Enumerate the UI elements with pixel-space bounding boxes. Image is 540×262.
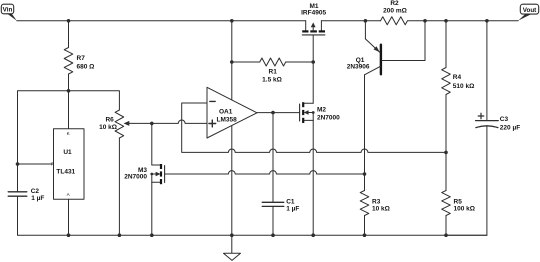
transistor M2 2N7000	[312, 62, 314, 103]
IC U1 TL431 body	[54, 129, 85, 200]
svg-text:220 µF: 220 µF	[500, 125, 520, 132]
wire R7 to U1 K pin	[68, 74, 70, 129]
svg-text:R2: R2	[390, 0, 399, 7]
ground symbol	[231, 235, 233, 253]
wire U1 R pin	[18, 163, 54, 165]
capacitor C3	[486, 21, 488, 121]
svg-text:1 µF: 1 µF	[286, 206, 299, 213]
node dot ground rail op-amp V-	[230, 233, 234, 237]
svg-text:Vin: Vin	[3, 7, 13, 14]
node dot feedback at divider	[444, 151, 448, 155]
wire top rail M1 to R2	[321, 20, 380, 22]
svg-text:R6: R6	[105, 116, 114, 123]
wire top rail R2 to Vout	[408, 20, 519, 22]
node dot wire B at R3	[363, 172, 367, 176]
node dot top rail Q1 base	[423, 19, 427, 23]
svg-text:10 kΩ: 10 kΩ	[372, 206, 390, 213]
resistor R1	[231, 21, 233, 62]
svg-text:1 µF: 1 µF	[31, 195, 44, 202]
node Vout label	[520, 4, 538, 14]
resistor R2	[381, 17, 408, 25]
node dot top rail C3	[485, 19, 489, 23]
wire feedback divider to op-amp inverting input	[182, 103, 446, 152]
resistor R4	[445, 21, 447, 68]
svg-text:C2: C2	[31, 188, 40, 195]
capacitor C1	[272, 113, 274, 203]
node dot ground rail C1	[271, 233, 275, 237]
resistor R3	[360, 191, 369, 216]
svg-text:R7: R7	[77, 55, 86, 62]
svg-text:200 mΩ: 200 mΩ	[383, 7, 407, 14]
node dot ground rail U1	[67, 233, 71, 237]
svg-text:10 kΩ: 10 kΩ	[99, 124, 117, 131]
node dot ground rail R6	[118, 233, 122, 237]
node dot ground rail M2	[311, 233, 315, 237]
svg-text:100 kΩ: 100 kΩ	[454, 206, 475, 213]
node Vin label	[1, 4, 13, 14]
node dot top rail R7	[67, 19, 71, 23]
wire ground rail	[18, 234, 487, 236]
node dot R1 right	[311, 60, 315, 64]
wire op-amp non-inverting input	[152, 120, 207, 123]
node dot R6 wiper junction	[150, 122, 154, 126]
node dot R1 left	[230, 60, 234, 64]
svg-text:U1: U1	[63, 149, 72, 156]
wire op-amp output	[257, 112, 300, 114]
svg-text:IRF4905: IRF4905	[301, 10, 326, 17]
potentiometer R6 wiper arrow	[129, 122, 152, 124]
node dot ground rail M3	[150, 233, 154, 237]
svg-text:680 Ω: 680 Ω	[77, 64, 95, 71]
wire horizontal left node	[18, 91, 120, 192]
svg-text:510 kΩ: 510 kΩ	[453, 83, 474, 90]
svg-text:R4: R4	[453, 74, 462, 81]
svg-text:R5: R5	[454, 199, 463, 206]
node dot R7 bottom junction	[67, 89, 71, 93]
wire op-amp V- supply to ground rail	[231, 126, 233, 236]
op-amp OA1 LM358	[207, 87, 257, 138]
svg-text:2N7000: 2N7000	[124, 174, 147, 181]
svg-text:R3: R3	[372, 199, 381, 206]
wire U1 A pin to ground rail	[68, 199, 70, 235]
svg-text:1.5 kΩ: 1.5 kΩ	[262, 77, 282, 84]
transistor M1 IRF4905	[305, 21, 307, 32]
node dot U1 R pin left column	[16, 162, 20, 166]
node dot ground rail R3	[363, 233, 367, 237]
svg-text:OA1: OA1	[219, 109, 233, 116]
resistor R5	[445, 152, 447, 190]
wire op-amp V+ supply	[231, 62, 233, 100]
svg-text:LM358: LM358	[217, 116, 238, 123]
svg-text:C1: C1	[286, 198, 295, 205]
svg-text:Vout: Vout	[523, 7, 537, 14]
potentiometer R6	[115, 110, 124, 138]
svg-text:2N3906: 2N3906	[347, 63, 370, 70]
wire top rail Vin to M1	[17, 20, 306, 22]
svg-text:TL431: TL431	[56, 169, 75, 176]
resistor R7	[68, 21, 70, 48]
svg-text:C3: C3	[500, 116, 509, 123]
node dot ground rail R5	[444, 233, 448, 237]
transistor M3 2N7000	[151, 123, 153, 165]
capacitor C2	[8, 191, 27, 193]
svg-text:2N7000: 2N7000	[317, 115, 340, 122]
wire M3 gate to R3 node	[165, 171, 365, 174]
svg-text:R1: R1	[269, 69, 278, 76]
node dot top rail R4	[444, 19, 448, 23]
svg-text:M2: M2	[317, 107, 326, 114]
node dot top rail R1	[230, 19, 234, 23]
node dot top rail Q1 emitter	[364, 19, 368, 23]
transistor Q1 2N3906	[364, 21, 366, 39]
node dot op-amp output	[271, 111, 275, 115]
